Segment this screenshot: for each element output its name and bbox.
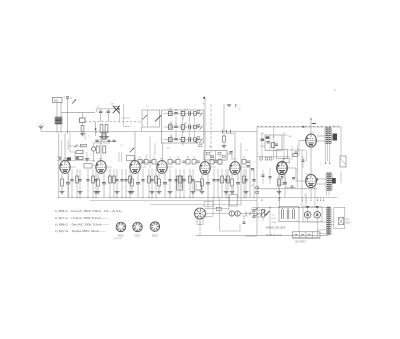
svg-text:50K: 50K <box>289 136 293 138</box>
svg-text:1M: 1M <box>167 148 170 150</box>
svg-text:.1: .1 <box>187 157 190 159</box>
svg-text:ON-OFF: ON-OFF <box>257 210 266 212</box>
svg-text:W: W <box>227 103 231 107</box>
svg-text:V₄ 6Q7-G ·· Output 250V. 34mA: V₄ 6Q7-G ·· Output 250V. 34mA —— <box>55 229 107 233</box>
svg-text:47: 47 <box>146 155 149 157</box>
svg-text:5: 5 <box>88 136 90 138</box>
svg-text:6J7: 6J7 <box>133 158 136 160</box>
svg-text:7M1: 7M1 <box>54 100 59 102</box>
svg-text:2: 2 <box>254 162 256 164</box>
svg-text:Λ₁ 6 Δ₂: Λ₁ 6 Δ₂ <box>113 209 122 213</box>
svg-text:1M: 1M <box>261 134 264 136</box>
svg-text:230V: 230V <box>346 222 352 224</box>
svg-text:25Z6: 25Z6 <box>306 174 310 176</box>
svg-text:2M: 2M <box>111 104 114 106</box>
svg-text:2: 2 <box>235 104 237 108</box>
svg-text:6Q7: 6Q7 <box>233 158 237 160</box>
svg-text:6Q7G: 6Q7G <box>152 236 158 238</box>
svg-text:3: 3 <box>313 132 314 134</box>
svg-text:V₂ 6K7-G ·· I.F.amp. 250V. 8.2: V₂ 6K7-G ·· I.F.amp. 250V. 8.2mA —— <box>55 216 109 220</box>
svg-text:6K7G: 6K7G <box>135 236 141 238</box>
svg-text:25: 25 <box>121 145 124 147</box>
svg-text:6B8: 6B8 <box>218 164 221 166</box>
svg-text:.02: .02 <box>131 182 135 184</box>
svg-text:6K8: 6K8 <box>63 158 66 160</box>
svg-text:F: F <box>71 97 73 100</box>
svg-text:1M: 1M <box>184 109 187 111</box>
svg-text:50,000: 50,000 <box>242 215 249 217</box>
svg-text:1M: 1M <box>251 185 254 187</box>
svg-text:6K7: 6K7 <box>99 158 102 160</box>
svg-text:.05: .05 <box>168 109 171 111</box>
svg-text:A: A <box>64 96 66 99</box>
svg-text:A.C.: A.C. <box>346 218 351 221</box>
svg-text:V.C.: V.C. <box>272 215 276 217</box>
svg-text:465: 465 <box>209 147 213 149</box>
svg-text:5 DIODE: 5 DIODE <box>113 238 122 240</box>
svg-text:50: 50 <box>97 107 100 109</box>
svg-text:300: 300 <box>184 123 187 125</box>
svg-text:6K7: 6K7 <box>160 158 163 160</box>
svg-text:0.1: 0.1 <box>146 106 150 108</box>
svg-text:.05: .05 <box>168 123 171 125</box>
svg-text:HEATERS: HEATERS <box>295 241 306 244</box>
svg-text:W.C.: W.C. <box>257 217 262 219</box>
svg-text:V₁ 6K8-G ·· Freq.ch. 250V. 2.8: V₁ 6K8-G ·· Freq.ch. 250V. 2.8mA · 3.0 —… <box>55 209 116 213</box>
svg-text:FLD.: FLD. <box>272 218 277 220</box>
svg-text:.1: .1 <box>72 177 75 179</box>
svg-text:25L6: 25L6 <box>279 162 283 164</box>
svg-text:V₃ 6B8-G ·· Det.AVC 100V. 0.5m: V₃ 6B8-G ·· Det.AVC 100V. 0.5mA —— <box>55 222 110 226</box>
svg-text:MAINS 200-250V.: MAINS 200-250V. <box>266 227 286 230</box>
svg-text:.02: .02 <box>272 136 275 138</box>
svg-text:40-80 c⁄s. A.C.: 40-80 c⁄s. A.C. <box>266 234 282 237</box>
svg-text:250V: 250V <box>272 222 277 224</box>
svg-text:.05: .05 <box>245 150 249 152</box>
